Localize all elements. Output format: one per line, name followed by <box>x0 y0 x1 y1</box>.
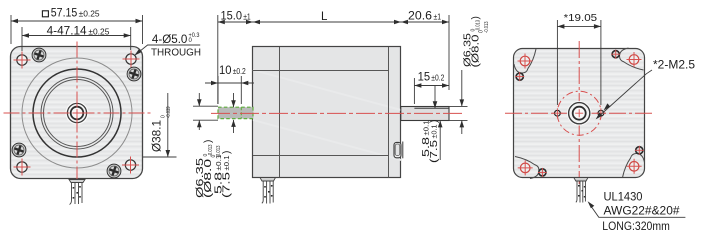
lead wires (rear view) <box>576 181 586 203</box>
svg-text:±0.2: ±0.2 <box>431 73 444 82</box>
corner scallop + tie-rod head top-left <box>515 72 524 81</box>
svg-text:L: L <box>321 11 328 23</box>
dimension: square 57.15+-0.25 <box>11 15 143 44</box>
M2.5 hole left <box>552 108 562 118</box>
dimension: dia 38.1 0/-0.039 <box>143 93 177 157</box>
pilot circle dia 38.1 <box>33 69 121 157</box>
svg-text:±1: ±1 <box>434 12 442 21</box>
screw top-right <box>127 67 141 81</box>
mounting hole top-right <box>123 51 140 68</box>
svg-text:(7.5: (7.5 <box>429 139 440 163</box>
rear shaft (optional, green dashed) <box>218 107 253 118</box>
step ring inner <box>44 80 111 147</box>
svg-text:): ) <box>221 151 232 154</box>
lead wires (front view) <box>70 183 83 205</box>
corner scallop + tie-rod head top-right <box>611 50 620 59</box>
lead wires (side view) <box>262 181 273 204</box>
svg-text:): ) <box>471 16 482 19</box>
svg-text:10: 10 <box>219 65 232 77</box>
rotated labels 5.8 / 7.5 (left) <box>213 155 224 195</box>
svg-text:UL1430: UL1430 <box>604 191 643 203</box>
motor flange body (front face) <box>11 47 143 179</box>
front end-cap line <box>279 47 281 178</box>
svg-text:±0.25: ±0.25 <box>88 28 110 37</box>
svg-text:±0.1: ±0.1 <box>222 156 231 171</box>
mounting hole top-left (rear) <box>518 54 533 69</box>
dimension: 10+-0.2 (rear shaft flat length) <box>205 76 254 104</box>
rear end-cap line <box>388 47 390 178</box>
svg-text:20.6: 20.6 <box>408 10 432 22</box>
svg-text:-0.013: -0.013 <box>484 21 490 33</box>
screw bottom-right <box>107 164 121 178</box>
outer boss circle <box>22 58 132 168</box>
svg-text:4-Ø5.0: 4-Ø5.0 <box>152 34 188 46</box>
rear hub rings <box>567 101 592 126</box>
svg-text:±0.2: ±0.2 <box>233 67 246 76</box>
svg-text:±0.25: ±0.25 <box>79 10 101 19</box>
cable clip tab on front face <box>394 142 401 157</box>
svg-text:(7.5: (7.5 <box>221 171 232 198</box>
front flat depth dimension lines (5.8/7.5) <box>435 86 440 161</box>
rear shaft diameter callout tangent lines <box>193 93 218 130</box>
step ring outer <box>41 77 113 149</box>
front shaft flat edge <box>414 107 449 109</box>
dimension: 20.6+-1 (front shaft length) <box>401 15 449 90</box>
leader to wires <box>588 201 686 217</box>
corner ear boundary curves <box>514 49 536 73</box>
svg-text:4-47.14: 4-47.14 <box>47 26 88 38</box>
screw bottom-left <box>12 143 26 157</box>
horizontal centerline (rear) <box>505 112 653 114</box>
M2.5 hole right <box>596 108 606 118</box>
mounting hole bottom-left (rear) <box>518 160 533 175</box>
svg-text:15.0: 15.0 <box>221 10 243 22</box>
svg-text:THROUGH: THROUGH <box>151 47 201 59</box>
mounting hole bottom-right (rear) <box>627 159 642 174</box>
svg-text:(Ø8.0: (Ø8.0 <box>471 34 482 68</box>
svg-text:±0.1: ±0.1 <box>430 125 439 139</box>
mounting hole bottom-left <box>14 159 31 176</box>
svg-text:LONG:320mm: LONG:320mm <box>602 221 670 233</box>
strain relief (side view) <box>260 178 276 181</box>
chamfer line top <box>253 70 389 72</box>
strain relief (rear view) <box>574 178 588 182</box>
label: 4-dia5.0 +0.3/0 THROUGH with leader <box>134 33 201 59</box>
dimension: 15+-0.2 (front shaft flat length) <box>414 78 449 104</box>
rotated labels dia6.35 / dia8.0 (left) <box>195 144 214 198</box>
rear shaft flat boundary (green dashed) <box>240 107 242 118</box>
svg-text:AWG22#&20#: AWG22#&20# <box>604 205 681 217</box>
dimension: *19.05 (M2.5 spacing) <box>557 20 601 105</box>
rotated labels dia6.35 / dia8.0 (right) <box>463 20 482 67</box>
svg-text:57.15: 57.15 <box>51 8 78 20</box>
bolt circle dia 19.05x2 (red dash-dot) <box>557 91 601 135</box>
vertical centerline (rear) <box>578 41 580 184</box>
motor body (side view) <box>253 47 401 178</box>
vertical centerline <box>76 42 78 184</box>
lead-wire strain relief (front view) <box>69 180 85 183</box>
svg-text:15: 15 <box>418 71 431 83</box>
svg-text:±1: ±1 <box>243 12 251 21</box>
dimension: L (body length) <box>253 21 401 23</box>
front shaft diameter callout <box>449 70 468 134</box>
svg-text:-0.013: -0.013 <box>476 20 482 32</box>
shaft end circle <box>71 107 84 120</box>
chamfer line bottom <box>253 155 389 157</box>
svg-text:Ø38.1: Ø38.1 <box>152 120 164 152</box>
mounting hole bottom-right <box>122 157 139 174</box>
svg-text:*2-M2.5: *2-M2.5 <box>653 60 695 72</box>
rotated labels 5.8 / 7.5 (right) <box>421 121 432 158</box>
red cross at shaft center <box>73 109 81 117</box>
corner scallop + tie-rod head bottom-left <box>538 168 547 177</box>
mounting hole top-left <box>14 52 31 69</box>
rear flat depth arrows (5.8) <box>233 93 235 133</box>
svg-text:-0.039: -0.039 <box>166 106 172 118</box>
horizontal centerline (shaft axis) <box>211 112 462 114</box>
horizontal centerline <box>4 112 152 114</box>
dimension: 4-47.14+-0.25 <box>22 27 131 51</box>
shaft boss ring <box>66 102 89 125</box>
screw top-left <box>32 48 46 62</box>
svg-text:*19.05: *19.05 <box>564 12 598 24</box>
front shaft <box>401 107 449 121</box>
svg-text:(Ø8.0: (Ø8.0 <box>203 158 214 198</box>
dimension: 15.0+-1 (rear shaft length) <box>218 15 253 104</box>
svg-text:): ) <box>429 120 440 123</box>
faint diagonal sheen <box>253 70 401 160</box>
rear end-bell body <box>514 49 645 178</box>
corner scallop + tie-rod head bottom-right <box>635 146 644 155</box>
svg-text:): ) <box>203 140 214 143</box>
mounting hole top-right (rear) <box>627 52 642 67</box>
